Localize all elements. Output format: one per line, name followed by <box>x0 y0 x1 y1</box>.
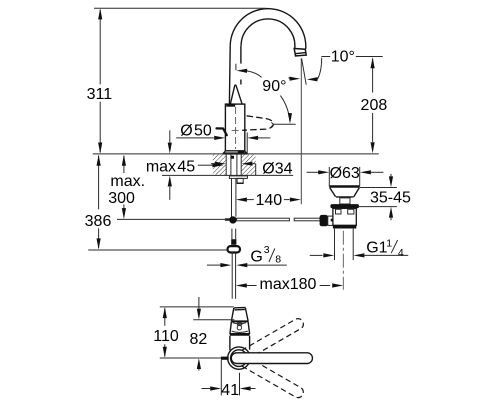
dashed lever handle <box>242 116 273 131</box>
svg-text:G: G <box>250 248 262 265</box>
supply pipe lower <box>232 253 235 299</box>
svg-text:4: 4 <box>398 247 404 259</box>
top view rim arcs <box>233 323 246 324</box>
drain flange top thick line <box>329 185 359 187</box>
top view aerator detail <box>237 323 241 325</box>
drain body bottom bar <box>333 225 356 228</box>
svg-text:82: 82 <box>190 331 208 348</box>
svg-text:Ø63: Ø63 <box>330 165 360 182</box>
angle 10 left arrow <box>288 77 300 81</box>
drain centerline <box>342 231 344 290</box>
handle stub left <box>221 357 229 360</box>
dimension 82 <box>190 297 208 371</box>
top view spout tip <box>231 307 248 321</box>
lever tip notch <box>271 123 274 127</box>
pop-up rod bar <box>237 218 290 221</box>
drain taper <box>330 188 360 197</box>
threaded shank <box>226 154 241 175</box>
drain seal flange black band <box>330 204 359 208</box>
dimension D63 <box>307 165 384 182</box>
dimension 386 <box>85 155 228 250</box>
top view spout cross line <box>231 320 248 322</box>
spout outer arc <box>230 9 306 49</box>
dimension 140 <box>236 192 301 209</box>
rod knurled knob <box>320 215 328 226</box>
svg-text:311: 311 <box>87 86 113 103</box>
G3/8 fitting stub <box>232 229 236 240</box>
svg-text:8: 8 <box>275 254 281 266</box>
svg-text:140: 140 <box>255 192 282 209</box>
extension line 82 top <box>193 319 234 321</box>
svg-text:Ø 50: Ø 50 <box>180 122 212 139</box>
base flange <box>223 151 247 154</box>
spout left outer edge <box>228 46 231 104</box>
top extension line <box>94 7 266 9</box>
faucet body <box>225 104 244 151</box>
dimension D50 <box>176 122 270 153</box>
stream extension line <box>300 58 302 204</box>
dimension G3/8 <box>207 244 287 267</box>
svg-text:41: 41 <box>221 382 239 399</box>
drain top-hat nut <box>340 198 350 204</box>
dimension 41 <box>202 360 256 399</box>
rod junction dot <box>229 216 236 223</box>
body top black accent <box>226 104 235 107</box>
svg-text:386: 386 <box>85 213 112 230</box>
dimension 311 <box>87 8 113 153</box>
G3/8 nut <box>228 246 241 252</box>
svg-text:300: 300 <box>108 190 135 207</box>
angle 90 arc to lever <box>280 96 292 124</box>
top view: 110 extension line <box>160 306 234 308</box>
side hook lever <box>217 128 227 135</box>
mounting nut <box>237 178 243 183</box>
svg-text:35-45: 35-45 <box>370 189 411 206</box>
spout left inner edge <box>240 46 242 85</box>
drain flange sides / D63 extension lines <box>329 167 359 186</box>
top view body taper <box>230 322 250 335</box>
deck hatch right <box>241 155 255 175</box>
deck bottom line <box>162 174 293 176</box>
dimension max.300 <box>108 155 145 219</box>
svg-text:max 45: max 45 <box>146 159 195 176</box>
drain tailpipe <box>335 229 354 261</box>
dimension G1 1/4 <box>310 237 409 259</box>
pop-up rod left line <box>117 218 229 220</box>
hub inner circle <box>231 350 248 367</box>
angle 10 right arrow <box>307 58 322 82</box>
drain body <box>333 208 356 225</box>
dimension max45 <box>146 130 224 200</box>
svg-text:208: 208 <box>361 97 388 114</box>
dashed handle up <box>241 317 305 360</box>
svg-text:110: 110 <box>153 328 179 345</box>
dimension 208 <box>361 57 388 153</box>
top view body sides <box>230 336 250 351</box>
locknut flange below deck <box>229 176 247 179</box>
svg-text:G1: G1 <box>366 240 387 257</box>
dimension 110 <box>153 307 179 358</box>
supply pipe <box>232 178 236 216</box>
angle 10 leader and text <box>321 48 382 65</box>
svg-text:max.: max. <box>110 173 145 190</box>
dashed handle down <box>241 357 305 400</box>
base flange accent <box>238 151 245 154</box>
solid handle <box>231 353 312 364</box>
neck cone <box>230 85 242 104</box>
body centerline <box>232 107 239 149</box>
spout inner arc <box>241 19 295 49</box>
centerline segment above body <box>235 64 237 70</box>
dimension 35-45 <box>358 174 411 220</box>
svg-text:90°: 90° <box>262 78 286 95</box>
hub outer circle <box>228 347 250 369</box>
lever leader line <box>274 123 296 125</box>
svg-text:max180: max180 <box>260 276 317 293</box>
spout tip aerator cap <box>294 49 306 56</box>
shank set screw <box>231 156 234 159</box>
deck hatch left <box>213 155 226 175</box>
drain body clips <box>336 209 342 214</box>
angle 90 arrow at centerline <box>236 69 261 78</box>
top view heavy band <box>230 333 250 336</box>
extension line at handle axis <box>160 357 221 359</box>
deck top line <box>93 153 379 155</box>
svg-text:3: 3 <box>264 244 270 256</box>
dimension D34 <box>211 161 293 178</box>
svg-text:10°: 10° <box>331 48 355 65</box>
dimension max180 <box>236 276 343 293</box>
svg-text:Ø34: Ø34 <box>262 161 292 178</box>
tilted stream line <box>302 59 307 85</box>
svg-text:1: 1 <box>386 237 392 249</box>
